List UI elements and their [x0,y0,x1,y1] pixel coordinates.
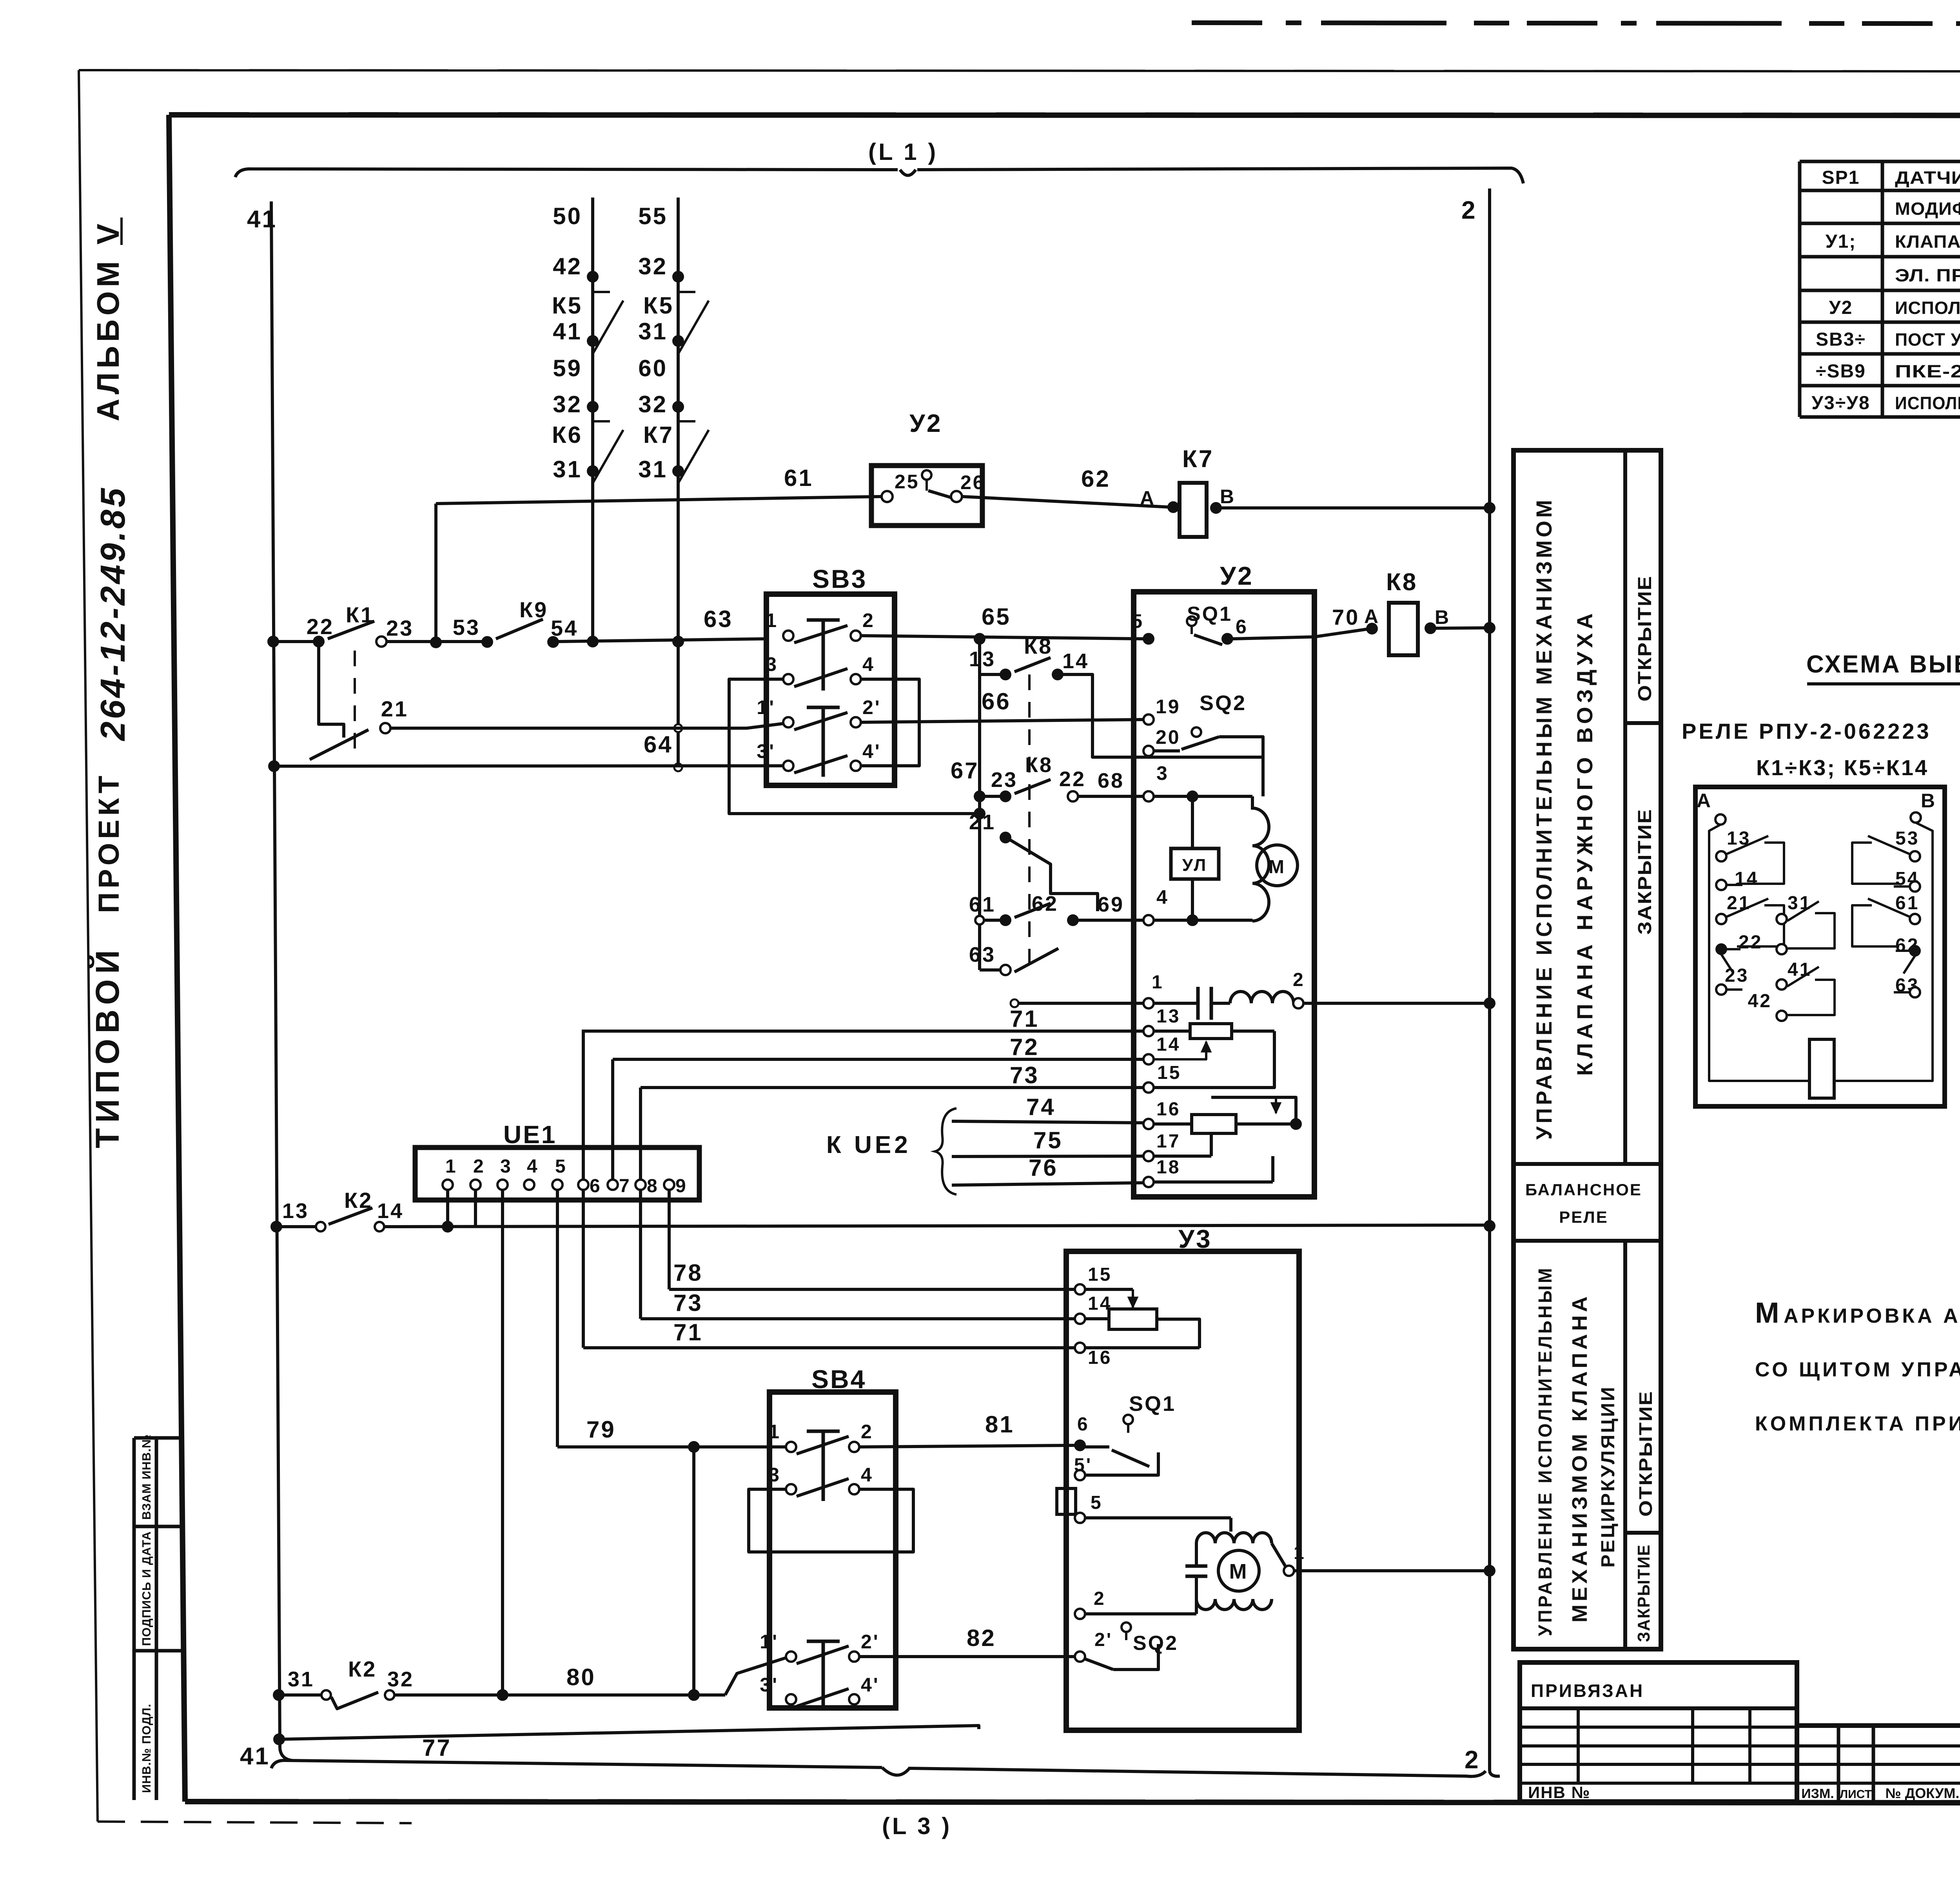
push-button SB4 box [769,1392,896,1708]
mechanical link dashed K8 [1028,674,1031,970]
svg-text:9: 9 [675,1176,688,1196]
potentiometer wiper arrow from pin 14 [1154,1042,1206,1059]
UE1 pin 8 [635,1180,646,1190]
svg-text:59: 59 [553,355,582,381]
svg-text:4': 4' [862,740,881,762]
svg-text:ВЗАМ ИНВ.№: ВЗАМ ИНВ.№ [140,1434,153,1520]
svg-text:31: 31 [638,456,668,482]
svg-text:13: 13 [969,647,996,671]
UE1 pin 2 [470,1180,481,1190]
wire 82 (SB4 pin2' to У3 pin2') [859,1655,1075,1658]
svg-text:К9: К9 [519,597,548,622]
svg-text:У3: У3 [1178,1224,1212,1253]
У2 pins 3 and 4 [1143,791,1154,801]
wire 77 [273,1733,285,1745]
wire 61 [436,497,882,504]
svg-text:6: 6 [1077,1414,1089,1435]
svg-text:СХЕМА ВЫВОДОВ КОНТАКТОВ: СХЕМА ВЫВОДОВ КОНТАКТОВ [1806,651,1960,678]
У3 limit switch SQ1 (pins 6-5') [1074,1439,1086,1451]
UE1 pin risers [582,1031,585,1185]
svg-text:У3÷У8: У3÷У8 [1811,393,1870,413]
svg-text:70: 70 [1332,605,1359,629]
svg-text:32: 32 [638,391,668,417]
wire 62 [962,497,1170,507]
svg-text:42: 42 [553,253,582,279]
sidebar stamp boxes (ВЗАМ ИНВ №, ПОДПИСЬ И ДАТА, ИНВ № ПОДЛ) [132,1438,136,1800]
wire 66 (SB3 pin2' to У2 pin 19) [861,720,1143,722]
svg-text:5: 5 [555,1156,567,1177]
svg-text:41: 41 [553,318,582,344]
wire 65 (SB3 pin2 to У2 SQ1) [861,636,1143,639]
svg-text:13: 13 [282,1199,309,1223]
wire from SB3 pin 3 elbow down to K8 contact column [729,679,980,814]
svg-text:ИНВ.№ ПОДЛ.: ИНВ.№ ПОДЛ. [140,1704,153,1793]
parts table (L1) grid [1800,160,1960,163]
svg-text:62: 62 [1032,892,1058,915]
svg-text:13: 13 [1156,1006,1180,1027]
motor pilot lamp УЛ box [1171,848,1219,879]
svg-text:2: 2 [473,1156,485,1177]
У3 terminal plate [1057,1488,1076,1514]
svg-text:2: 2 [1094,1588,1106,1609]
svg-text:№ ДОКУМ.: № ДОКУМ. [1885,1785,1959,1801]
svg-text:А: А [1697,790,1712,812]
svg-text:71: 71 [673,1319,703,1345]
svg-text:23: 23 [991,768,1018,792]
У2 capacitor and inductor row (pins 1-2) [1143,998,1154,1008]
svg-text:21: 21 [969,810,996,834]
svg-text:В: В [1435,606,1450,628]
svg-text:5: 5 [1131,610,1144,632]
svg-text:31: 31 [638,318,668,344]
svg-text:79: 79 [586,1416,616,1443]
svg-text:У2: У2 [1220,561,1254,590]
svg-text:РЕЦИРКУЛЯЦИИ: РЕЦИРКУЛЯЦИИ [1598,1385,1619,1568]
svg-text:÷SB9: ÷SB9 [1816,361,1866,382]
svg-text:УПРАВЛЕНИЕ ИСПОЛНИТЕЛЬНЫМ: УПРАВЛЕНИЕ ИСПОЛНИТЕЛЬНЫМ [1535,1266,1556,1636]
У3 capacitor [1185,1564,1207,1568]
svg-text:1: 1 [445,1156,457,1177]
svg-text:22: 22 [307,614,334,639]
contact K9 (pins 53-54) [481,636,493,648]
motor М circle (У2) [1257,845,1298,886]
svg-text:КЛАПАНА НАРУЖНОГО ВОЗДУХА: КЛАПАНА НАРУЖНОГО ВОЗДУХА [1572,609,1597,1076]
У2 pins 13,14,15 with potentiometer [1143,1026,1154,1036]
svg-text:К8: К8 [1386,569,1417,596]
svg-text:СО ЩИТОМ УПРАВЛЕНИЯ ,: СО ЩИТОМ УПРАВЛЕНИЯ , В ЧЕРТЕЖАХ ДАННОГО [1755,1358,1960,1381]
svg-text:UE1: UE1 [503,1120,557,1149]
svg-text:23: 23 [1725,965,1749,986]
svg-text:77: 77 [422,1735,452,1761]
svg-text:66: 66 [982,688,1011,714]
svg-text:У2: У2 [1829,297,1853,318]
svg-text:73: 73 [1010,1062,1039,1088]
svg-text:ПОСТ УПРАВЛЕНИЯ КНОПОЧНЫЙ: ПОСТ УПРАВЛЕНИЯ КНОПОЧНЫЙ [1895,330,1960,350]
sheet outer thin border [79,70,1960,72]
svg-text:1': 1' [760,1631,779,1653]
svg-text:К1: К1 [346,602,374,627]
svg-text:2': 2' [1094,1630,1112,1650]
svg-text:МЕХАНИЗМОМ КЛАПАНА: МЕХАНИЗМОМ КЛАПАНА [1568,1293,1592,1622]
svg-text:64: 64 [644,731,673,758]
svg-text:3: 3 [1156,762,1169,784]
svg-text:К7: К7 [1182,446,1214,473]
У2 limit switch SQ2 (pins 19-20) [1143,714,1154,725]
svg-text:ПРИВЯЗАН: ПРИВЯЗАН [1531,1680,1644,1701]
У3 pin 1 to bus 2 [1284,1566,1294,1576]
svg-text:14: 14 [1062,649,1089,673]
svg-text:1: 1 [766,609,778,631]
svg-text:КЛАПАН РЕГУЛИРУЮЩИЙ 254 939: КЛАПАН РЕГУЛИРУЮЩИЙ 254 939 НЖ-С [1895,232,1960,252]
svg-text:2': 2' [862,696,881,718]
svg-text:2: 2 [862,609,875,631]
contact K8 (pins 61-62, wire 69) [975,916,984,925]
svg-text:1: 1 [768,1421,781,1443]
svg-text:3: 3 [500,1156,512,1177]
inner drawing frame (thick) [169,115,1960,116]
svg-text:2: 2 [1461,196,1477,224]
wire 72 (У2 pin14 to UE1 pin7) [613,1058,1143,1061]
svg-text:ПОДПИСЬ И ДАТА: ПОДПИСЬ И ДАТА [140,1531,153,1646]
svg-text:14: 14 [377,1199,404,1223]
svg-text:1: 1 [1152,972,1164,993]
SB3 upper button (pins 1,2,3,4) [783,631,793,641]
svg-text:SB3: SB3 [812,564,867,593]
svg-text:20: 20 [1156,726,1181,748]
wires 74-76 with brace К UE2 [952,1121,1143,1123]
svg-text:65: 65 [982,604,1011,630]
svg-text:4: 4 [527,1156,539,1177]
svg-text:ПКЕ-212- 2У3 ТУ 16-526. 216: ПКЕ-212- 2У3 ТУ 16-526. 216 - 74 [1895,361,1960,381]
contact K2 (pins 13-14) [270,1221,282,1233]
wire 80 [394,1693,725,1697]
У2 limit switch SQ1 (pins 5-6) [1143,633,1154,645]
wire from bus to SB3 pin 3' (row 1955) [268,760,280,772]
wire 73 (UE1 pin8 to У3 pin14) [641,1317,1075,1320]
svg-text:41: 41 [247,206,277,233]
svg-text:SP1: SP1 [1822,167,1860,188]
У3 potentiometer wiper arrow [1132,1289,1134,1307]
svg-text:1: 1 [1294,1543,1306,1563]
potentiometer 2 wiper arrow [1275,1097,1277,1113]
wire segment 23-53 [387,640,487,643]
relay K1 pinout box [1695,787,1945,1106]
svg-text:72: 72 [1010,1034,1039,1060]
svg-text:61: 61 [784,465,813,491]
svg-text:50: 50 [553,203,582,229]
svg-text:53: 53 [453,615,480,640]
svg-text:SQ1: SQ1 [1129,1392,1176,1416]
title block ПРИВЯЗАН box [1520,1662,1797,1802]
svg-text:ИЗМ.: ИЗМ. [1801,1786,1834,1801]
svg-text:23: 23 [386,616,414,640]
K1 pin A with bus [1715,814,1726,825]
svg-text:32: 32 [553,391,582,417]
svg-text:15: 15 [1088,1264,1112,1285]
svg-text:К2: К2 [348,1657,377,1681]
svg-text:SQ2: SQ2 [1133,1632,1178,1655]
svg-text:60: 60 [638,355,668,381]
contact K8 pin 63 (NC blade) [1000,965,1011,975]
riser from wire79 junction to wire 80 [692,1447,695,1695]
svg-text:КОМПЛЕКТА ПРИОБРЕТАЕТ: КОМПЛЕКТА ПРИОБРЕТАЕТ ИНДЕКС „ П1 ” [1755,1412,1960,1435]
svg-text:16: 16 [1088,1347,1112,1368]
svg-text:ОТКРЫТИЕ: ОТКРЫТИЕ [1635,575,1655,702]
svg-text:ИНВ №: ИНВ № [1528,1783,1590,1802]
svg-text:5: 5 [1091,1492,1103,1513]
svg-text:УЛ: УЛ [1182,856,1208,875]
svg-text:18: 18 [1156,1157,1180,1178]
svg-text:УПРАВЛЕНИЕ ИСПОЛНИТЕЛЬНЫМ МЕХ: УПРАВЛЕНИЕ ИСПОЛНИТЕЛЬНЫМ МЕХАНИЗМОМ [1532,497,1556,1140]
svg-text:МОДИФИКАЦИЯ 1- 0,1÷ 1,0 КПА (: МОДИФИКАЦИЯ 1- 0,1÷ 1,0 КПА (-10÷100 кгс… [1895,199,1960,219]
outer border bottom dashes (left remnant) [98,1822,412,1823]
svg-text:61: 61 [1895,893,1919,914]
contact K8 (pins 23-22, wire 68) [974,790,985,802]
svg-text:22: 22 [1059,767,1086,791]
svg-text:21: 21 [381,696,408,721]
bus line (L1) top [235,168,1523,183]
svg-text:41: 41 [240,1743,270,1770]
svg-text:SB3÷: SB3÷ [1816,329,1866,350]
svg-text:67: 67 [951,758,979,783]
svg-text:5': 5' [1074,1455,1092,1476]
panel divider lines [1623,450,1627,1164]
wire 71 (UE1 pin6 to У3 pin16) [583,1346,1075,1349]
svg-text:76: 76 [1029,1155,1058,1181]
svg-text:РЕЛЕ: РЕЛЕ [1559,1208,1608,1226]
wire K7-B to bus 2 [1219,506,1490,509]
K1 pin B with bus [1911,812,1921,823]
svg-text:В: В [1220,486,1236,508]
wire 63 segment to SB3 [558,639,766,642]
svg-text:М: М [1755,1296,1781,1329]
title block stamp strip [1797,1723,1960,1728]
svg-text:3: 3 [768,1464,781,1486]
svg-text:SB4: SB4 [811,1365,866,1394]
svg-text:17: 17 [1156,1131,1180,1152]
У3 pin 5 and motor (М) with windings [1075,1513,1085,1523]
contact K8 auxiliary pin 21 (NC) [1000,832,1011,843]
svg-text:8: 8 [647,1176,659,1196]
contact K2 (pins 31-32) on wire 80 [273,1689,285,1701]
svg-text:К1÷К3; К5÷К14: К1÷К3; К5÷К14 [1756,755,1929,780]
svg-text:71: 71 [1010,1006,1039,1032]
svg-text:16: 16 [1156,1099,1180,1120]
svg-text:32: 32 [387,1668,414,1691]
svg-text:У1;: У1; [1826,231,1857,252]
svg-text:6: 6 [590,1176,602,1196]
svg-text:31: 31 [1788,893,1811,914]
bus wire 41 (left vertical) [271,201,280,1748]
svg-text:2': 2' [861,1631,880,1653]
svg-text:32: 32 [638,253,668,279]
vertical feeder for K8 contacts [978,639,981,970]
svg-text:2: 2 [861,1421,873,1443]
svg-text:ПРОЕКТ: ПРОЕКТ [93,772,125,913]
svg-text:14: 14 [1156,1034,1180,1055]
svg-text:У2: У2 [909,409,942,437]
svg-text:73: 73 [673,1290,703,1316]
title block small grid under ПРИВЯЗАН [1520,1726,1797,1729]
motor winding arcs (У2) [1252,796,1269,921]
svg-text:31: 31 [288,1668,314,1691]
svg-text:4: 4 [1156,886,1169,908]
bus wire 2 (right vertical) [1488,189,1491,1771]
svg-text:54: 54 [551,616,578,640]
UE1 pin 4 [524,1180,534,1190]
svg-text:К5: К5 [643,292,674,319]
scan noise dashes along top edge [1192,23,1960,24]
svg-text:ЗАКРЫТИЕ: ЗАКРЫТИЕ [1634,1544,1653,1642]
SB4 pin3 elbow link [749,1489,913,1552]
UE1 pin 6 [578,1180,588,1190]
svg-text:ИСПОЛНИТЕЛЬНЫЙ МЕХАНИЗМ МЭО·: ИСПОЛНИТЕЛЬНЫЙ МЕХАНИЗМ МЭО·0,63|25-0.25… [1895,393,1960,413]
UE1 pin 3 [497,1180,508,1190]
terminal block UE1 [415,1148,699,1200]
wire 64 (21 to SB3 pin 1') [390,723,784,728]
long wire from K2-14 to bus 2 [385,1225,1490,1227]
svg-text:22: 22 [1739,932,1762,953]
У3 pins 15,14,16 and potentiometer [1075,1284,1085,1294]
svg-text:К5: К5 [552,292,583,319]
svg-text:62: 62 [1081,466,1111,492]
bus line (L3) bottom [271,1760,1486,1777]
svg-text:61: 61 [969,893,996,916]
svg-text:264-12-249.85: 264-12-249.85 [93,486,132,741]
UE1 pin 7 [608,1180,618,1190]
svg-text:75: 75 [1033,1127,1063,1153]
UE1 pin 5 [552,1180,563,1190]
svg-text:ТИПОВОЙ: ТИПОВОЙ [89,944,126,1148]
svg-text:3': 3' [760,1674,779,1696]
svg-text:74: 74 [1026,1094,1056,1120]
wire 70 А K8 coil В to bus 2 [1314,629,1368,637]
svg-text:М: М [1229,1560,1249,1583]
svg-text:4: 4 [862,653,875,675]
SB4 upper button (pins 1,2,3,4) [786,1442,796,1452]
svg-text:SQ2: SQ2 [1200,691,1247,715]
svg-text:3': 3' [757,740,775,762]
svg-text:3: 3 [766,653,778,675]
svg-text:2: 2 [1293,970,1305,990]
svg-text:АЛЬБОМ V: АЛЬБОМ V [91,220,125,421]
svg-text:ЛИСТ: ЛИСТ [1840,1788,1872,1801]
svg-text:К8: К8 [1024,634,1053,658]
actuator У2 box [1134,592,1314,1197]
svg-text:АРКИРОВКА АППАРАТУРЫ И: АРКИРОВКА АППАРАТУРЫ И ПРОВОДОВ, СВЯЗАНН… [1784,1305,1960,1327]
relay contact chain K5/K6 (wires 50-42-41-59-32-31) [591,198,594,642]
svg-text:42: 42 [1748,991,1772,1012]
wire from 14 down to SQ2 net [1058,674,1263,757]
svg-text:7: 7 [619,1176,631,1196]
wire 81 (SB4 pin2 to У3 pin6) [859,1445,1075,1447]
svg-text:53: 53 [1895,828,1919,849]
riser from junction 1112 to wire 61 row [434,504,437,642]
svg-text:ЭЛ. ПРИВОДОМ МЭО - 0.63 / 25-: ЭЛ. ПРИВОДОМ МЭО - 0.63 / 25- 0.25П [1895,265,1960,285]
svg-text:БАЛАНСНОЕ: БАЛАНСНОЕ [1525,1180,1642,1199]
svg-text:SQ1: SQ1 [1187,603,1232,625]
chain 2 lower extension to wire 64 row [677,642,680,767]
svg-text:2: 2 [1465,1746,1480,1774]
svg-text:ОТКРЫТИЕ: ОТКРЫТИЕ [1635,1390,1656,1517]
svg-text:К2: К2 [344,1188,373,1213]
У3 pins 2-2' and SQ2 [1075,1609,1085,1619]
svg-text:25: 25 [895,471,920,493]
svg-text:31: 31 [553,456,582,482]
svg-text:ЗАКРЫТИЕ: ЗАКРЫТИЕ [1635,809,1655,935]
relay contact chain K5/K7 (wires 55-32-31-60-32-31) [677,198,680,642]
svg-text:М: М [1269,857,1286,877]
wire 73 (У2 pin15 to UE1 pin8) [641,1086,1143,1089]
junction of wire 63 row on bus 41 [267,636,279,647]
mechanical link dashed for K1 [354,651,356,758]
svg-text:ДАТЧИК-РЕЛЕ НАПОРА ДПН - 10: ДАТЧИК-РЕЛЕ НАПОРА ДПН - 100- 11 [1895,168,1960,188]
svg-text:82: 82 [967,1625,996,1651]
wire 79 (UE1 pin5 to SB4 pin1) [557,1445,786,1448]
svg-text:80: 80 [566,1664,596,1690]
push-button SB3 box [766,594,895,785]
svg-text:К6: К6 [552,422,583,448]
svg-text:81: 81 [985,1411,1014,1438]
svg-text:А: А [1140,487,1156,509]
svg-text:К7: К7 [643,422,674,448]
actuator У3 box [1066,1251,1299,1730]
contact K1 auxiliary (pin 21, NC) [319,644,344,738]
svg-text:63: 63 [969,943,996,966]
function panel outer box [1514,450,1661,1649]
svg-text:26: 26 [960,471,985,493]
contact K1 (pins 22-23) [273,640,319,643]
wire 78 (UE1 pin9 to У3 pin15) [669,1288,1075,1291]
svg-text:68: 68 [1098,769,1124,792]
svg-text:(L 3 ): (L 3 ) [882,1813,952,1839]
svg-text:78: 78 [673,1260,703,1286]
svg-text:69: 69 [1098,893,1124,916]
svg-text:63: 63 [704,606,733,632]
SB3 link bracket right of pins 4-4' [861,679,919,766]
svg-text:15: 15 [1157,1062,1181,1083]
svg-text:1': 1' [757,696,775,718]
svg-text:К UE2: К UE2 [826,1131,911,1158]
svg-text:(L 1 ): (L 1 ) [868,139,938,165]
relay coil K7 [1167,501,1179,513]
svg-text:6: 6 [1236,616,1248,638]
UE1 pin 1 [443,1180,453,1190]
У2 pins 16,17,18 with potentiometer 2 [1143,1119,1154,1129]
svg-text:55: 55 [638,203,668,229]
svg-text:В: В [1921,790,1936,812]
wire 71 (У2 pin13 to UE1 pin6) [582,1030,1143,1033]
K1 coil [1809,1039,1834,1098]
UE1 pin 9 [664,1180,674,1190]
svg-text:4': 4' [861,1674,880,1696]
svg-text:14: 14 [1735,868,1759,889]
svg-text:РЕЛЕ РПУ-2-062223: РЕЛЕ РПУ-2-062223 [1682,719,1931,743]
SB3 lower button (pins 1',2',3',4') [783,717,793,727]
SB4 lower button (pins 1',2',3',4') [786,1651,796,1662]
svg-text:41: 41 [1788,959,1811,980]
svg-text:ИСПОЛНИТЕЛЬНЫЙ МЕХАНИЗМ МЭ: ИСПОЛНИТЕЛЬНЫЙ МЕХАНИЗМ МЭО-40 [1895,298,1960,318]
У2 limit switch box (contacts 25-26) [871,466,982,526]
svg-text:4: 4 [861,1464,873,1486]
contact K8 (pins 13-14) [1000,669,1011,680]
svg-text:19: 19 [1156,696,1181,718]
